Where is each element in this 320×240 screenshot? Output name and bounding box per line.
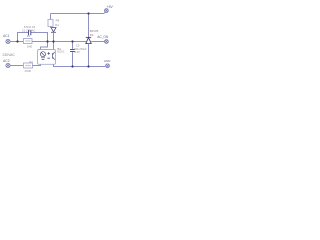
texts bbox=[3, 5, 114, 73]
diode D1 bbox=[51, 28, 56, 33]
wire bridge minus to gnd rail bbox=[54, 64, 106, 66]
resistor R1 bbox=[24, 39, 33, 44]
node rail-zener junction bbox=[87, 12, 89, 14]
svg-text:+5V: +5V bbox=[107, 5, 114, 9]
capacitor C2 bbox=[72, 42, 74, 67]
wire R4 to D1 bbox=[50, 27, 52, 28]
node zener gnd junction bbox=[87, 65, 89, 67]
svg-text:B250C: B250C bbox=[58, 52, 65, 54]
wire C1 branch up bbox=[18, 33, 48, 42]
wire R2 to bridge bbox=[33, 64, 41, 65]
supply +5V symbol bbox=[104, 9, 108, 14]
port AC1 bbox=[6, 39, 10, 43]
wire top +5V rail bbox=[51, 13, 105, 15]
svg-text:GND: GND bbox=[104, 59, 112, 63]
junction dots bbox=[16, 12, 89, 67]
node C1 rejoin junction bbox=[46, 40, 48, 42]
svg-text:C2: C2 bbox=[76, 44, 80, 48]
svg-text:470nF X2: 470nF X2 bbox=[24, 25, 36, 29]
node C2 top junction bbox=[71, 40, 73, 42]
svg-text:AC_ON: AC_ON bbox=[97, 35, 109, 39]
svg-text:1M0: 1M0 bbox=[27, 44, 33, 48]
wire AC1 to R1 bbox=[10, 41, 23, 43]
svg-text:6.3V: 6.3V bbox=[75, 51, 80, 54]
svg-text:R2: R2 bbox=[30, 60, 34, 64]
svg-text:230VAC: 230VAC bbox=[3, 53, 16, 57]
background bbox=[0, 0, 120, 75]
svg-text:AC1: AC1 bbox=[3, 34, 10, 38]
node C2 gnd junction bbox=[71, 65, 73, 67]
wire bridge AC pin jog bbox=[41, 42, 48, 50]
svg-text:R4: R4 bbox=[56, 18, 60, 22]
wire zener to AC_ON port bbox=[91, 41, 104, 43]
wire D1 to bridge plus pin bbox=[53, 32, 55, 49]
svg-text:AC2: AC2 bbox=[3, 59, 10, 63]
wire rail corner down to R4 bbox=[50, 14, 52, 20]
svg-text:C1 275VAC: C1 275VAC bbox=[22, 28, 36, 32]
resistor R4 bbox=[48, 20, 53, 27]
port AC_ON bbox=[105, 40, 109, 44]
zener D4 vertical bbox=[88, 14, 90, 38]
svg-text:R1: R1 bbox=[27, 34, 31, 38]
svg-text:D4: D4 bbox=[90, 33, 94, 37]
capacitor C1 bbox=[29, 30, 31, 35]
wire AC2 to R2 bbox=[10, 65, 23, 67]
wire R1 to zener node bbox=[32, 41, 86, 43]
resistor R2 bbox=[24, 63, 33, 68]
node AC1-C1 junction bbox=[16, 40, 18, 42]
svg-text:470R: 470R bbox=[25, 69, 31, 73]
bridge rectifier B1 bbox=[38, 50, 56, 65]
gnd symbol bbox=[106, 64, 110, 68]
svg-text:D1: D1 bbox=[55, 23, 59, 27]
port AC2 bbox=[6, 63, 10, 67]
svg-text:B1: B1 bbox=[58, 47, 62, 51]
node bridge plus junction bbox=[52, 40, 54, 42]
